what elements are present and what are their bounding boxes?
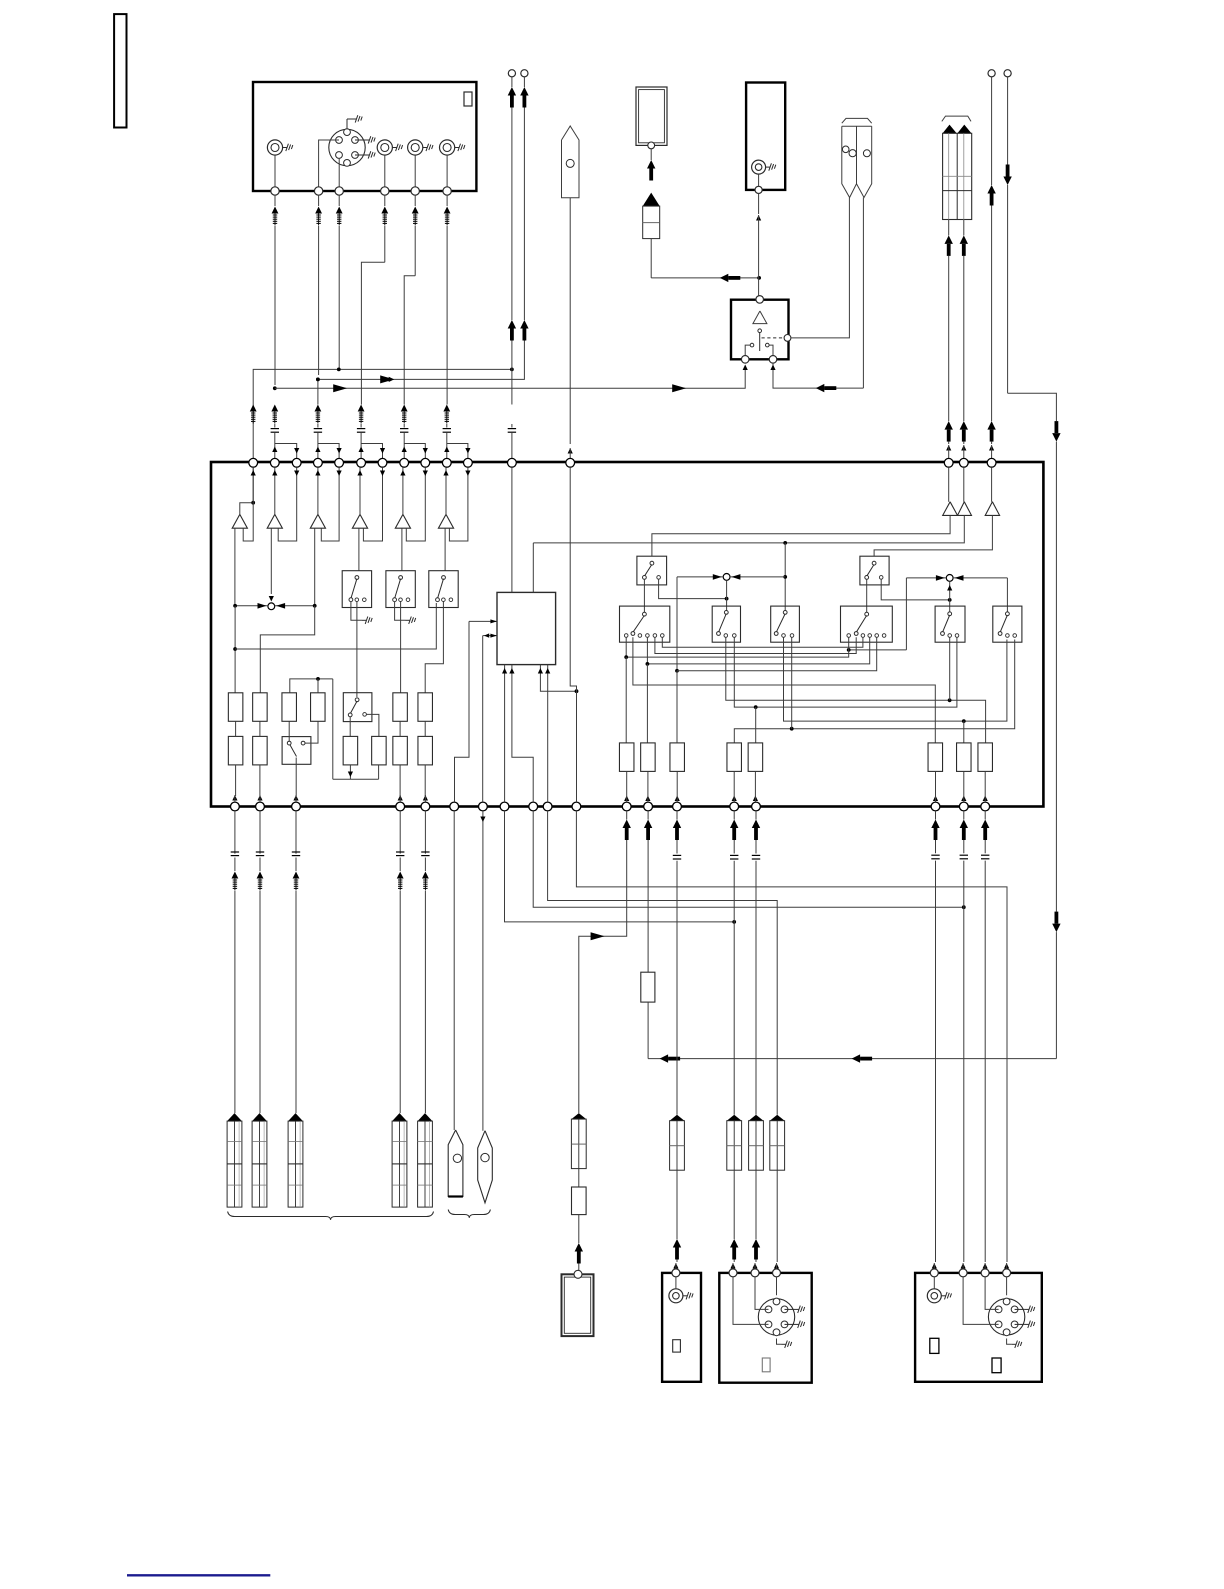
label window in U1: [464, 92, 472, 106]
branch h3 junction on A1: [273, 386, 277, 390]
terminal d on U9: [1003, 1269, 1011, 1277]
IC top pin wire from tri-B bus: [532, 543, 534, 593]
DIN connector CN3 in U9: [988, 1299, 1024, 1335]
arrow into N1 from right: [276, 603, 285, 609]
wire W5 left pin to b7: [949, 637, 951, 700]
wire amp3-out jog to R2a: [260, 606, 314, 693]
arrow into terminal R1: [946, 445, 951, 451]
terminal BT2 on U4 bottom edge: [256, 802, 265, 811]
cable symbol on A4 lower: [358, 405, 365, 412]
wire BR right pin jog to N3 column: [881, 579, 950, 600]
resistor R17 on L13: [641, 972, 655, 1002]
wire A6 into terminal: [446, 432, 448, 459]
hole in probe W1: [566, 159, 574, 167]
SW-A output to S1: [356, 602, 358, 698]
wire b1 down to R9: [625, 657, 627, 743]
hole in PB7: [481, 1153, 489, 1161]
junction tri-B bus to box3 column: [783, 541, 787, 545]
indicator window in U9: [992, 1358, 1001, 1373]
junction b1-R9 column: [624, 655, 628, 659]
IC bottom pin b wire jog: [512, 665, 533, 803]
feedback riser to res bus: [332, 679, 334, 779]
terminal on U7 top edge: [672, 1269, 680, 1277]
external circle E4: [1004, 70, 1011, 77]
wire R2a-R2b: [259, 721, 261, 736]
W1 pins: [624, 634, 628, 638]
antenna twin plug block P3 bracket: [942, 116, 971, 121]
wire U2 down to relay: [758, 194, 760, 215]
terminal BT18 on U4 bottom edge: [959, 802, 968, 811]
wire J4 to terminal: [446, 155, 448, 188]
ground at CN1 upper-right pin: [355, 139, 365, 141]
IC U5 (control IC): [497, 592, 556, 664]
relay coil pin circle: [758, 329, 762, 333]
terminal T1-4 on U1 bottom edge: [381, 187, 389, 195]
bare plug PB6 (flat tip): [448, 1130, 463, 1197]
BR right pin: [879, 576, 883, 580]
ground at CN3 low-right: [1015, 1323, 1025, 1325]
arrow b on power bus: [852, 1054, 861, 1062]
hole c in plug block P2: [863, 150, 870, 157]
switch box BL (upper left small): [637, 556, 667, 585]
amp2 input wire: [274, 467, 276, 514]
resistor R15: [957, 743, 972, 772]
wire to cassette unit: [578, 1215, 580, 1243]
terminal BT9 on U4 bottom edge: [529, 802, 538, 811]
relay lever: [759, 333, 761, 352]
wire A1 into terminal: [274, 432, 276, 459]
RCA plug PB: [252, 1113, 267, 1121]
terminal TT1 on U4 top edge: [249, 458, 258, 467]
cassette adapter box U6 (double border): [562, 1274, 594, 1336]
terminal BT8 on U4 bottom edge: [500, 802, 509, 811]
junction at relay drop: [757, 276, 761, 280]
wire amp1-out to resistor R1a: [234, 606, 236, 693]
drop L19 from BT19 with tick: [984, 811, 986, 820]
W3 pins: [782, 634, 786, 638]
battery pack B1 (double border box): [636, 87, 667, 145]
amp2 output wire with arrow into mix node: [270, 528, 272, 594]
DIN connector CN1 in U1: [329, 129, 365, 165]
lead E3 with bold arrow: [991, 77, 993, 185]
terminal TT11 on U4 top edge: [464, 458, 473, 467]
wire below P-L16: [755, 1170, 757, 1239]
resistor R8: [372, 736, 387, 765]
bus h1 (to terminal 1): [253, 369, 512, 458]
receiver unit box U9: [915, 1273, 1042, 1382]
amp1 output wire: [234, 528, 236, 606]
cable joint tick on A6: [443, 428, 451, 430]
terminal T1-2 on U1 bottom edge: [314, 187, 322, 195]
drop L16 from BT16 with tick: [755, 811, 757, 820]
amplifier unit box U7: [662, 1273, 701, 1382]
long bus y649 to switch SW-C left pin: [235, 603, 436, 649]
wire E4 jog right and down (outer line): [1008, 393, 1057, 421]
bus b9 W3mid-W6mid (grey): [784, 637, 1007, 721]
hole in PB6: [453, 1154, 461, 1162]
arrow into right terminal: [770, 365, 775, 371]
junction N1-amp3: [313, 604, 317, 608]
terminal BT7 on U4 bottom edge: [479, 802, 488, 811]
drop L10 from BT10 jog to plug3 line: [548, 811, 778, 1115]
drop L3 from BT3: [295, 811, 297, 854]
S2 output to terminal: [295, 758, 297, 797]
W2 pins: [724, 634, 728, 638]
drop L5 from BT5: [424, 811, 426, 854]
N3 bus left corner down: [905, 578, 907, 650]
second bold arrow on E1: [508, 320, 516, 329]
SW-C pins: [442, 598, 446, 602]
drop L8 from BT8 jog to DIN line: [505, 811, 735, 922]
RCA plug PB: [418, 1113, 433, 1121]
terminal TT3 on U4 top edge: [292, 458, 301, 467]
tri-A input from terminal R1: [948, 467, 950, 502]
terminal TT15 on U4 top edge: [959, 458, 968, 467]
arrow into terminal 13: [568, 448, 573, 454]
cable plug symbol on line A1: [274, 195, 276, 206]
bus b4 W1pin6-W4pin3: [662, 637, 863, 647]
amp4 output to switch SW-A: [358, 528, 360, 571]
second bold arrow on P3 left lead: [945, 421, 953, 430]
terminal TT5 on U4 top edge: [335, 458, 344, 467]
terminal BT3 on U4 bottom edge: [292, 802, 301, 811]
S2 right contact wire to R4a bottom: [305, 721, 318, 743]
IC bottom pin c wire jog: [540, 665, 576, 692]
node N2 bus: [677, 576, 723, 578]
junction A2 to bus h2: [316, 378, 320, 382]
wire BL left pin down to box W1: [643, 579, 645, 612]
S2 right contact: [301, 741, 305, 745]
wire N3 down to box W5: [949, 581, 951, 612]
W2 lever: [724, 611, 728, 615]
terminal circle on B1: [648, 142, 655, 149]
BL right pin: [657, 576, 661, 580]
SW-B lever: [399, 576, 403, 580]
ground at CN1 lower-right pin: [355, 154, 365, 156]
drop L4 from BT4: [399, 811, 401, 854]
IC left pin 1 drop to bottom terminal: [455, 621, 470, 802]
second bold arrow on P3 right lead: [960, 421, 968, 430]
terminal TT10 on U4 top edge: [442, 458, 451, 467]
S2 left contact from R3a: [288, 721, 290, 741]
terminal BT4 on U4 bottom edge: [396, 802, 405, 811]
terminal BT10 on U4 bottom edge: [543, 802, 552, 811]
wire R2b to terminal: [259, 765, 261, 796]
bus b1 W1pin1-W4pin1: [626, 637, 849, 657]
resistor R6b: [418, 736, 433, 765]
amp3 input wire: [317, 467, 319, 514]
monitor unit box U2: [746, 83, 785, 190]
SW-C lever: [442, 576, 446, 580]
terminal BT14 on U4 bottom edge: [673, 802, 682, 811]
wire R5b to terminal: [399, 765, 401, 796]
ground at CN1 top pin: [346, 119, 348, 129]
terminal BT11 on U4 bottom edge: [572, 802, 581, 811]
tri-C output bus to box-R: [874, 515, 992, 556]
wire L18 into box4: [961, 1263, 966, 1269]
RCA plug PB: [392, 1113, 407, 1121]
W3 lever: [783, 611, 787, 615]
wire A2 lower with cable symbol: [317, 379, 319, 404]
res top bus y679: [290, 679, 333, 693]
resistor R5a: [393, 693, 408, 722]
bus b7 W2mid-R16: [726, 637, 986, 743]
S2 lever open: [287, 741, 291, 745]
arrow into N3 from right: [955, 575, 964, 581]
N3 bus left lower jog: [849, 649, 907, 651]
amp6 output to switch SW-C: [444, 528, 446, 571]
cable plug symbol on line A2 (DIN left): [318, 195, 320, 206]
BL lever: [650, 561, 654, 565]
line tri-C triangle: [985, 502, 999, 516]
switch box W2: [712, 606, 740, 642]
plug P-L15: [727, 1115, 742, 1121]
bus h2 (tape monitor line): [318, 341, 525, 380]
fuse window in U7: [673, 1340, 681, 1352]
loop-through jog wire: [404, 444, 425, 459]
lead E1 with bold arrow: [511, 77, 513, 87]
buffer amp AMP2 triangle: [267, 514, 282, 528]
terminal BT12 on U4 bottom edge: [622, 802, 631, 811]
lead from B1 with bold arrow: [650, 149, 652, 160]
RCA jack in U9: [927, 1289, 941, 1303]
IC left pin 2 drop to bottom terminal: [482, 636, 484, 803]
terminal TT12 on U4 top edge: [508, 458, 517, 467]
wire terminal a to jack U9: [933, 1277, 935, 1289]
junction at node bus: [783, 575, 787, 579]
wire below P-L10: [776, 1170, 778, 1262]
mix node N2 circle: [723, 574, 730, 581]
wire L11 into box4: [1004, 1263, 1009, 1269]
bus b5 W1pin5-W4pin2: [655, 637, 856, 653]
external circle E3: [988, 70, 995, 77]
cable symbol on terminal-1 drop: [250, 405, 257, 412]
cable joint tick on A5: [400, 428, 408, 430]
arrow a on power bus: [660, 1054, 669, 1062]
switch box W1 (wide): [620, 606, 670, 642]
wire terminal c to CN2 top pin: [776, 1277, 778, 1295]
unit box U1 (top-left source unit): [253, 82, 476, 191]
terminal BT16 on U4 bottom edge: [752, 802, 761, 811]
cable plug symbol on line A5: [414, 195, 416, 206]
N2 bus left corner down: [676, 577, 678, 693]
cable joint tick on A4: [357, 428, 365, 430]
wire BL right pin jog to N2 column: [659, 579, 727, 598]
loop-through jog wire: [318, 444, 339, 459]
buffer amp AMP3 triangle: [310, 514, 325, 528]
arrow into relay left terminal: [743, 365, 748, 371]
resistor R10: [641, 743, 656, 772]
footer rule (blue): [127, 1574, 270, 1576]
cable plug symbol on line A4: [384, 195, 386, 206]
drop L2 from BT2: [259, 811, 261, 854]
terminal T1-6 on U1 bottom edge: [443, 187, 451, 195]
relay contact a: [750, 343, 754, 347]
plug P-L14: [670, 1115, 685, 1121]
junction b8-R12 column: [754, 705, 758, 709]
tri-B output bus to IC: [533, 515, 964, 543]
bus b3 N2corner-W4pin5: [677, 637, 877, 671]
loop-through jog wire: [361, 444, 382, 459]
terminal T1-5 on U1 bottom edge: [411, 187, 419, 195]
SW-A pins: [355, 598, 359, 602]
speaker twin plug block P2 bracket: [842, 118, 872, 123]
switch box W6: [993, 606, 1022, 642]
terminal TT9 on U4 top edge: [421, 458, 430, 467]
W6 lever: [1006, 612, 1010, 616]
wire resistor to bottom terminal: [676, 771, 678, 795]
wire J3 to terminal: [414, 155, 416, 188]
adapter plug P-L12: [571, 1113, 586, 1119]
amp1 input jog from terminal 1: [240, 467, 253, 514]
terminal TT2 on U4 top edge: [270, 458, 279, 467]
wire b3 column to R13: [676, 671, 678, 743]
cable plug symbol on line A3 (DIN lower-left): [338, 195, 340, 206]
resistor R7: [343, 736, 358, 765]
hole a in plug block P2: [842, 146, 849, 153]
W4 lever: [865, 612, 869, 616]
IC left pin 2 wire: [483, 635, 497, 637]
second bold down arrow on outer line: [1052, 924, 1060, 933]
drop L7 from BT7 to bare plug: [482, 811, 484, 1131]
resistor R5b: [393, 736, 408, 765]
drop L9 from BT9 jog: [533, 811, 964, 907]
arrow into N2 from left: [713, 574, 722, 580]
IC bottom pin a wire: [504, 665, 506, 803]
S1 right contact jog to resistor R8: [366, 714, 379, 736]
resistor R2a: [253, 693, 268, 722]
cable joint tick on A2: [314, 428, 322, 430]
wire down to bottom terminal 11: [576, 691, 578, 802]
buffer amp AMP5 triangle: [395, 514, 410, 528]
BR lever: [872, 561, 876, 565]
W1 lever: [643, 612, 647, 616]
switch box BR (upper right small): [860, 556, 889, 585]
terminal a on U8: [729, 1269, 737, 1277]
mix bus through N1: [235, 605, 268, 607]
line tri-A triangle: [943, 502, 958, 516]
resistor R16: [978, 743, 993, 772]
lead from P3 left: [948, 220, 950, 236]
drop L18 from BT18 with tick: [963, 811, 965, 820]
resistor R1a: [228, 693, 243, 722]
wire R6a-R6b: [424, 721, 426, 736]
bus b2 W1pin4-W4pin4: [647, 637, 869, 664]
wire jack to U2 edge terminal: [758, 174, 760, 186]
cable plug symbol on line A6: [446, 195, 448, 206]
wire terminal d to CN3 top pin: [1006, 1277, 1008, 1295]
IC left pin 1 wire: [469, 620, 497, 622]
drop L13 from BT13 through resistor: [647, 811, 649, 820]
terminal BT17 on U4 bottom edge: [931, 802, 940, 811]
arrow into N2 from right: [731, 574, 740, 580]
W5 lever: [948, 612, 952, 616]
terminal on U3 top edge: [756, 296, 764, 304]
DIN connector CN2 in U8: [758, 1299, 794, 1335]
buffer amp AMP6 triangle: [438, 514, 453, 528]
inline body R18: [572, 1187, 587, 1215]
drop L12 from BT12 jog to adapter chain: [626, 811, 628, 820]
S1 lever: [355, 698, 359, 702]
wire terminal to jack U7: [675, 1277, 677, 1289]
wire terminal c to CN3 mid-left: [985, 1277, 999, 1310]
wire resistor to bottom terminal: [647, 771, 649, 795]
terminal circle on U6: [574, 1270, 582, 1278]
third bold arrow on E3: [987, 421, 995, 430]
switch box W3: [771, 606, 800, 642]
wire L19 into box4: [983, 1263, 988, 1269]
wire bus to R4a: [317, 679, 319, 693]
arrow on pin2 wire: [484, 633, 489, 637]
terminal TT7 on U4 top edge: [378, 458, 387, 467]
amp5 input wire: [402, 467, 404, 514]
terminal TT13 on U4 top edge: [566, 458, 575, 467]
buffer amp AMP4 triangle: [352, 514, 367, 528]
adapter plug P-B1: [643, 193, 660, 207]
resistor R3a: [282, 693, 297, 722]
wire resistor to bottom terminal: [935, 771, 937, 795]
wire A1 lower with cable symbol: [271, 405, 278, 412]
contact b wire to right terminal: [769, 345, 773, 355]
tri-B input from terminal R2: [963, 467, 965, 502]
wire resistor to bottom terminal: [754, 771, 756, 795]
junction pin c with terminal-13 line: [575, 689, 579, 693]
terminal TT14 on U4 top edge: [944, 458, 953, 467]
SW-C mid pin jog to R6a: [425, 602, 443, 693]
wire L17 into box4: [932, 1263, 937, 1269]
drop L1 from BT1 with tick and cable symbol: [234, 811, 236, 854]
arrow on h3 left: [333, 384, 347, 392]
indicator window in U8: [762, 1358, 770, 1372]
wire A4 into terminal: [360, 432, 362, 459]
W6 pins: [1006, 634, 1010, 638]
drop L15 from BT15 with tick: [733, 811, 735, 820]
RCA jack J3 in U1: [408, 140, 423, 155]
resistor R14: [928, 743, 943, 772]
resistor R11: [727, 743, 742, 772]
external line circle E1: [508, 70, 515, 77]
RCA jack J4 in U1: [440, 140, 455, 155]
wire L13 to power bus: [647, 1002, 649, 1059]
bus b10 R11-W6right (grey): [734, 640, 1014, 743]
wire terminal b to CN2 mid-left: [755, 1277, 769, 1310]
wire terminal b to CN3 low-left: [963, 1277, 999, 1325]
drop L17 from BT17 with tick: [935, 811, 937, 820]
wire resistor to bottom terminal: [626, 771, 628, 795]
junction h1 with line from top-right circle: [510, 368, 514, 372]
wire below P-L15: [733, 1170, 735, 1239]
switch box W5: [935, 606, 965, 642]
bold arrow on wire to speaker plugs: [816, 384, 825, 392]
N3 bus right corner to box W6: [1006, 578, 1008, 613]
terminal BT13 on U4 bottom edge: [644, 802, 653, 811]
amp4 loop wire: [363, 467, 382, 541]
switch box W4 (wide): [841, 606, 893, 642]
wire resistor to bottom terminal: [984, 771, 986, 795]
wire N2 down to box W2: [726, 580, 728, 612]
terminal 13 interior drop: [570, 467, 576, 691]
drop L14 from BT14 with tick: [676, 811, 678, 820]
buffer amp AMP1 triangle: [232, 514, 247, 528]
wire b2 down to R10: [646, 664, 648, 743]
wire resistor to bottom terminal: [963, 771, 965, 795]
RCA jack in U7: [669, 1289, 683, 1303]
W4 pins: [847, 634, 851, 638]
SW-B pins: [399, 598, 403, 602]
junction N2 column: [725, 597, 729, 601]
drop L6 from BT6 to bare plug: [453, 811, 455, 1130]
drop L11 from BT11 jog to DIN box right: [576, 811, 1007, 1262]
